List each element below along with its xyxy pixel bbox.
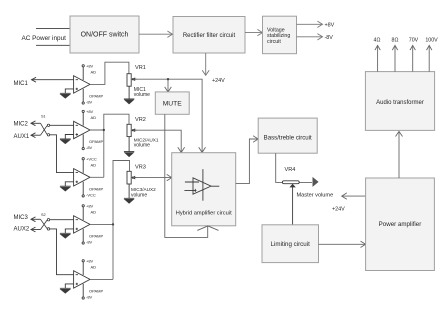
wire S1 bottom contact to U3 input — [50, 135, 74, 173]
op-amp U2 (MIC2 preamp) — [74, 110, 90, 149]
wire MUTE tap (down arrow into MUTE) — [165, 78, 172, 92]
svg-text:MIC1: MIC1 — [14, 81, 29, 87]
svg-text:AUX2: AUX2 — [14, 227, 30, 233]
wire hybrid output to bass/treble (arrow) — [236, 136, 259, 184]
wire +8V output arrow — [297, 21, 323, 27]
op-amp U3 (AUX1 buffer) — [74, 158, 90, 197]
wire U2/U3 outputs join to VR2 — [90, 114, 129, 177]
block Audio transformer — [365, 72, 434, 131]
svg-text:Bass/treble circuit: Bass/treble circuit — [264, 135, 312, 142]
wire +24V supply from rectifier (down arrow) — [202, 53, 209, 75]
ground (U1 + input) — [60, 89, 74, 98]
wire ON/OFF switch to rectifier (arrow) — [139, 31, 173, 37]
svg-text:MUTE: MUTE — [163, 101, 182, 108]
svg-text:70V: 70V — [409, 37, 419, 43]
svg-text:Rectifier filter circuit: Rectifier filter circuit — [183, 33, 236, 39]
svg-text:OPAMP: OPAMP — [89, 186, 103, 191]
potentiometer VR4 (master volume) — [282, 177, 318, 225]
wire limiting circuit to power amplifier (arrow) — [319, 241, 366, 247]
svg-text:+8V: +8V — [86, 259, 94, 264]
svg-text:VR1: VR1 — [135, 65, 146, 71]
svg-text:Limiting circuit: Limiting circuit — [271, 241, 310, 248]
wire U1 output to VR1 — [90, 62, 129, 84]
ground (U3 + input) — [60, 182, 74, 191]
svg-text:AC Power input: AC Power input — [22, 35, 67, 42]
svg-text:8Ω: 8Ω — [392, 37, 399, 43]
svg-text:circuit: circuit — [267, 39, 281, 45]
svg-text:-8V: -8V — [86, 295, 93, 300]
block MUTE — [155, 92, 189, 114]
svg-text:+24V: +24V — [212, 78, 225, 84]
node AUX1 input arrow — [31, 133, 41, 138]
block Limiting circuit — [262, 225, 319, 263]
svg-text:S2: S2 — [41, 213, 46, 217]
svg-text:S1: S1 — [41, 115, 46, 119]
svg-text:AD: AD — [91, 265, 97, 270]
wire 8 ohm output (up arrow) — [392, 45, 397, 71]
wire VR3 wiper to hybrid amplifier left (right arrow) — [133, 174, 172, 180]
wire power amplifier to audio transformer (up arrow) — [396, 131, 403, 178]
label MIC3/AUX2 volume — [131, 187, 156, 199]
wire VR1 bottom to ground — [124, 86, 134, 104]
svg-text:VR3: VR3 — [135, 165, 146, 171]
svg-text:-8V: -8V — [86, 240, 93, 245]
potentiometer VR2 — [127, 124, 137, 136]
wire 4 ohm output (up arrow) — [375, 45, 380, 71]
svg-text:100V: 100V — [425, 37, 438, 43]
wire U4/U5 outputs join to VR3 — [90, 161, 130, 280]
svg-text:Hybrid amplifier circuit: Hybrid amplifier circuit — [176, 210, 232, 216]
svg-text:AD: AD — [91, 70, 97, 75]
wire S1 top contact to U2 input — [50, 124, 74, 126]
wire VR2 wiper rail to hybrid amplifier (down arrow) — [133, 130, 185, 152]
ground (U5 + input) — [60, 284, 74, 293]
svg-text:+8V: +8V — [86, 64, 94, 69]
svg-text:OPAMP: OPAMP — [89, 139, 103, 144]
svg-text:-8V: -8V — [86, 145, 93, 150]
svg-text:AUX1: AUX1 — [14, 134, 30, 140]
svg-text:OPAMP: OPAMP — [89, 289, 103, 294]
svg-text:MIC3/AUX2: MIC3/AUX2 — [131, 187, 156, 192]
wire VR2 bottom to ground — [124, 137, 134, 157]
svg-text:Master volume: Master volume — [297, 193, 334, 199]
op-amp U1 (MIC1 preamp) — [74, 65, 90, 104]
wire S2 bottom contact to U5 input — [50, 229, 74, 275]
wire MUTE output loop to hybrid amplifier bottom (up arrow) — [165, 114, 208, 237]
wire -8V output arrow — [297, 34, 323, 40]
wide caret at hybrid amplifier bottom (feedback arrow) — [197, 226, 218, 231]
svg-text:VR2: VR2 — [135, 117, 146, 123]
block Power amplifier — [366, 178, 435, 271]
svg-text:+8V: +8V — [325, 23, 335, 29]
wire VR1 wiper rail to hybrid amplifier (down arrow) — [133, 79, 206, 152]
svg-text:AD: AD — [91, 210, 97, 215]
node AUX2 input arrow — [31, 227, 41, 232]
block ON/OFF switch — [70, 16, 139, 53]
AC power input terminals — [36, 29, 70, 46]
node MIC3 input arrow — [31, 217, 41, 222]
wire rectifier to voltage stabilizing (arrow) — [245, 29, 263, 35]
block Bass/treble circuit — [258, 118, 317, 153]
svg-text:volume: volume — [131, 193, 147, 199]
block Hybrid amplifier circuit — [172, 153, 236, 226]
svg-text:OPAMP: OPAMP — [89, 234, 103, 239]
svg-text:volume: volume — [134, 92, 150, 98]
wire VR3 bottom to ground — [124, 184, 134, 203]
op-amp U4 (MIC3 preamp) — [74, 205, 90, 244]
svg-text:AD: AD — [91, 163, 97, 168]
svg-text:VR4: VR4 — [285, 167, 296, 173]
ground (U2 + input) — [60, 135, 74, 144]
svg-text:+8V: +8V — [86, 204, 94, 209]
block Voltage stabilizing circuit — [263, 16, 297, 54]
svg-text:4Ω: 4Ω — [374, 37, 381, 43]
block Rectifier filter circuit — [173, 17, 245, 54]
svg-text:volume: volume — [134, 142, 150, 148]
ground (U4 + input) — [60, 229, 74, 238]
op-amp U5 (AUX2 buffer) — [74, 260, 90, 299]
label MIC1 volume — [134, 87, 150, 98]
wire 100V output (up arrow) — [427, 45, 432, 71]
node MIC2 input arrow — [31, 121, 41, 126]
potentiometer VR3 — [127, 171, 137, 184]
svg-text:+8V: +8V — [86, 109, 94, 114]
svg-text:-8V: -8V — [86, 100, 93, 105]
node MIC1 input — [32, 77, 74, 82]
potentiometer VR1 — [127, 74, 137, 87]
svg-text:+24V: +24V — [332, 207, 345, 213]
svg-text:+VCC: +VCC — [86, 157, 97, 162]
svg-text:OPAMP: OPAMP — [89, 94, 103, 99]
svg-text:AD: AD — [91, 115, 97, 120]
svg-text:MIC2: MIC2 — [14, 122, 29, 128]
switch S2 (MIC3/AUX2 select) — [41, 219, 50, 231]
wire power amplifier to master volume (left arrow) — [342, 193, 366, 199]
wire 70V output (up arrow) — [410, 45, 415, 71]
wire bass/treble to VR4 — [276, 153, 312, 182]
label MIC2/AUX1 volume — [134, 138, 159, 149]
wire S2 top contact to U4 input — [50, 219, 74, 221]
svg-text:-8V: -8V — [325, 35, 334, 41]
svg-text:MIC3: MIC3 — [14, 215, 29, 221]
op-amp inside hybrid amplifier — [184, 169, 219, 201]
svg-text:-VCC: -VCC — [86, 192, 96, 197]
svg-text:ON/OFF switch: ON/OFF switch — [81, 32, 129, 39]
switch S1 (MIC2/AUX1 select) — [41, 123, 50, 136]
svg-text:Audio transformer: Audio transformer — [376, 100, 424, 106]
svg-text:Power amplifier: Power amplifier — [379, 221, 422, 228]
